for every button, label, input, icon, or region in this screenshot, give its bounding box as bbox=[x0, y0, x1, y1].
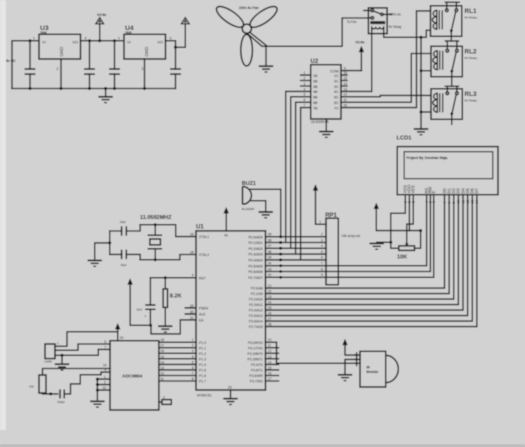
svg-text:P2.4/A12: P2.4/A12 bbox=[249, 309, 263, 313]
wire P2.7 to LCD D7 bbox=[266, 195, 477, 327]
wire P0.7 to LCD E bbox=[266, 195, 434, 278]
svg-text:22: 22 bbox=[268, 289, 272, 293]
U2 right pin numbers bbox=[344, 67, 348, 108]
svg-text:33pf: 33pf bbox=[121, 263, 127, 267]
svg-text:P2.2/A10: P2.2/A10 bbox=[249, 298, 263, 302]
svg-text:ADC0804: ADC0804 bbox=[122, 373, 143, 378]
wire XTAL1 net bbox=[140, 225, 196, 237]
svg-text:P1.1: P1.1 bbox=[199, 346, 206, 350]
buzzer BUZ1 bbox=[242, 181, 256, 211]
capacitor C2 bbox=[84, 39, 95, 90]
svg-text:P3.1/TXD: P3.1/TXD bbox=[248, 346, 263, 350]
wire P2.5 to LCD D5 bbox=[266, 195, 468, 316]
svg-text:7: 7 bbox=[104, 345, 106, 349]
svg-text:3: 3 bbox=[85, 37, 87, 41]
svg-text:4C: 4C bbox=[334, 90, 339, 94]
U2 right stubs 1C 2C 3C bbox=[341, 75, 347, 86]
wire U2 7C to RL1 coil bbox=[341, 11, 431, 108]
svg-text:V2=8v: V2=8v bbox=[97, 13, 107, 17]
svg-text:13: 13 bbox=[161, 366, 165, 370]
ADC bottom tab bbox=[159, 396, 171, 405]
svg-text:COM: COM bbox=[330, 69, 339, 73]
wire XTAL2 net bbox=[140, 255, 196, 260]
svg-text:19: 19 bbox=[190, 233, 194, 237]
resistor R2 8.2K bbox=[163, 278, 182, 326]
svg-text:LM35: LM35 bbox=[44, 359, 52, 363]
wire P2.6 to LCD D6 bbox=[266, 195, 473, 321]
svg-text:9: 9 bbox=[321, 273, 323, 277]
relay RL2 bbox=[431, 41, 478, 86]
ground XTAL bbox=[88, 260, 102, 266]
relay RL4 In-Fan bbox=[347, 8, 402, 34]
wire U2 6C to RL2 coil bbox=[341, 54, 431, 103]
svg-text:P2.3/A11: P2.3/A11 bbox=[249, 303, 263, 307]
svg-text:7805: 7805 bbox=[125, 31, 132, 35]
svg-text:PSEN: PSEN bbox=[199, 307, 209, 311]
svg-text:15: 15 bbox=[344, 76, 348, 80]
wire buzzer to P0.0 bbox=[250, 189, 280, 236]
wire LCD VEE to pot wiper bbox=[407, 195, 413, 243]
svg-text:3B: 3B bbox=[313, 85, 318, 89]
svg-text:15: 15 bbox=[161, 355, 165, 359]
svg-text:18: 18 bbox=[190, 250, 194, 254]
wire U4 VO output bbox=[166, 24, 186, 48]
svg-text:2: 2 bbox=[57, 67, 59, 71]
svg-text:7: 7 bbox=[321, 262, 323, 266]
svg-text:D7: D7 bbox=[474, 187, 479, 193]
svg-text:9V Relay: 9V Relay bbox=[389, 25, 402, 29]
wire RL2-RL3 contact bar bbox=[445, 85, 458, 87]
svg-text:P2.6/A14: P2.6/A14 bbox=[249, 320, 263, 324]
capacitor C7 10uf bbox=[136, 278, 155, 327]
svg-text:20: 20 bbox=[228, 385, 232, 389]
svg-text:P3.6/WR: P3.6/WR bbox=[249, 374, 263, 378]
svg-text:IR: IR bbox=[366, 365, 370, 369]
svg-text:P3.3/INT1: P3.3/INT1 bbox=[248, 358, 263, 362]
svg-text:6: 6 bbox=[304, 98, 306, 102]
svg-text:32: 32 bbox=[268, 273, 272, 277]
svg-text:5: 5 bbox=[304, 93, 306, 97]
svg-text:RL2: RL2 bbox=[465, 49, 478, 56]
wire U3 GND pin2 bbox=[60, 59, 62, 89]
svg-text:1: 1 bbox=[319, 220, 321, 224]
svg-text:P3.0/RXD: P3.0/RXD bbox=[248, 341, 264, 345]
svg-text:VO: VO bbox=[72, 40, 78, 45]
wire LCD VDD bbox=[408, 195, 410, 231]
svg-text:XTAL2: XTAL2 bbox=[199, 253, 209, 257]
svg-text:P0.7/AD7: P0.7/AD7 bbox=[248, 276, 263, 280]
fan 220v Ac Fan bbox=[214, 3, 280, 66]
svg-text:9v DC: 9v DC bbox=[6, 59, 16, 63]
svg-text:24: 24 bbox=[268, 300, 272, 304]
svg-text:1: 1 bbox=[33, 37, 35, 41]
wire P0.0 bbox=[266, 236, 327, 238]
svg-text:1B: 1B bbox=[313, 74, 318, 78]
svg-text:10uf: 10uf bbox=[136, 308, 142, 312]
svg-text:10K: 10K bbox=[397, 255, 407, 261]
wire P2.2 to LCD D2 bbox=[266, 195, 454, 299]
svg-text:GND: GND bbox=[59, 47, 64, 57]
wire relay coil to ULN 4C bbox=[371, 31, 373, 92]
wire relay coil to ground bus bbox=[384, 31, 421, 38]
power V2=8v arrow bbox=[96, 13, 107, 43]
relay RL1 bbox=[431, 2, 478, 41]
resistor pack RP1 bbox=[319, 213, 360, 285]
svg-text:17: 17 bbox=[161, 344, 165, 348]
wire 9v input left vertical bbox=[12, 41, 39, 89]
ground buzzer bbox=[259, 212, 273, 218]
svg-text:4: 4 bbox=[304, 87, 306, 91]
wire P0.1 to U2 4B bbox=[266, 91, 327, 242]
svg-text:16: 16 bbox=[268, 371, 272, 375]
svg-text:5C: 5C bbox=[334, 96, 339, 100]
LCD1 display bbox=[397, 135, 499, 194]
svg-text:1: 1 bbox=[118, 37, 120, 41]
svg-text:27: 27 bbox=[268, 317, 272, 321]
svg-text:VI: VI bbox=[127, 40, 131, 45]
svg-text:34: 34 bbox=[268, 262, 272, 266]
svg-text:9V Relay: 9V Relay bbox=[465, 56, 478, 60]
LCD pin numbers bbox=[404, 200, 480, 204]
svg-text:10: 10 bbox=[103, 386, 107, 390]
svg-text:7B: 7B bbox=[313, 106, 318, 110]
U1 P3 pin labels bbox=[248, 341, 264, 384]
svg-text:14: 14 bbox=[268, 360, 272, 364]
svg-text:5B: 5B bbox=[313, 96, 318, 100]
svg-text:14: 14 bbox=[344, 82, 348, 86]
svg-text:150pf: 150pf bbox=[57, 400, 65, 404]
svg-text:P0.1/AD1: P0.1/AD1 bbox=[248, 241, 263, 245]
svg-text:13: 13 bbox=[344, 87, 348, 91]
svg-text:2: 2 bbox=[142, 67, 144, 71]
svg-text:U2: U2 bbox=[311, 59, 319, 65]
wire U4 GND pin2 bbox=[144, 59, 146, 89]
svg-text:U1: U1 bbox=[196, 225, 204, 231]
ground fan bbox=[259, 66, 273, 72]
svg-text:11.0592MHZ: 11.0592MHZ bbox=[140, 215, 172, 221]
svg-text:P1.7: P1.7 bbox=[199, 380, 206, 384]
svg-text:GND: GND bbox=[144, 47, 149, 57]
svg-text:9: 9 bbox=[192, 274, 194, 278]
wire fan to ground bbox=[248, 34, 266, 66]
wire LM35 VCC bbox=[55, 332, 118, 346]
svg-text:1: 1 bbox=[104, 375, 106, 379]
wire LM35 out to ADC pin6 bbox=[55, 344, 110, 350]
U1 P0 pin labels bbox=[248, 235, 263, 280]
U1 P2 pin labels bbox=[249, 287, 263, 330]
ground 8.2K bbox=[158, 326, 172, 332]
svg-text:P3.4/T0: P3.4/T0 bbox=[251, 363, 263, 367]
wire P2.0 to LCD D0 bbox=[266, 195, 445, 288]
svg-text:AT89C51: AT89C51 bbox=[197, 393, 212, 397]
U1 P1 pin labels bbox=[199, 341, 206, 384]
svg-text:3: 3 bbox=[304, 82, 306, 86]
wire LM35 gnd to ADC pin7 bbox=[55, 349, 110, 355]
ground LM35 bbox=[55, 355, 69, 370]
svg-text:1C: 1C bbox=[334, 74, 339, 78]
wire RL1 top contact bar bbox=[445, 1, 459, 3]
svg-text:12: 12 bbox=[161, 371, 165, 375]
svg-text:3C: 3C bbox=[334, 85, 339, 89]
U1 right pin numbers bbox=[268, 233, 272, 382]
U1 left pin numbers bbox=[190, 233, 194, 382]
svg-text:P2.7/A15: P2.7/A15 bbox=[249, 325, 263, 329]
resistor RV1 10K pot bbox=[397, 243, 415, 261]
svg-text:P1.6: P1.6 bbox=[199, 374, 206, 378]
svg-text:220v Ac: 220v Ac bbox=[390, 12, 402, 16]
svg-text:1: 1 bbox=[192, 338, 194, 342]
svg-text:P2.1/A9: P2.1/A9 bbox=[251, 292, 263, 296]
svg-text:3: 3 bbox=[321, 238, 323, 242]
wire P0.6 to LCD RW bbox=[266, 195, 431, 272]
regulator U4 7805 bbox=[118, 25, 172, 71]
svg-text:16: 16 bbox=[161, 349, 165, 353]
svg-text:8.2K: 8.2K bbox=[170, 293, 182, 299]
svg-text:P1.0: P1.0 bbox=[199, 341, 206, 345]
svg-text:220v Ac Fan: 220v Ac Fan bbox=[239, 6, 259, 10]
wire P0.4 to U2 7B bbox=[266, 108, 327, 260]
wire P3.0 to IR module bbox=[266, 342, 356, 363]
svg-text:P1.5: P1.5 bbox=[199, 369, 206, 373]
wire P2.1 to LCD D1 bbox=[266, 195, 450, 294]
svg-text:33pf: 33pf bbox=[120, 220, 126, 224]
wire U3 VO to U4 VI bbox=[81, 40, 125, 42]
svg-text:14: 14 bbox=[161, 360, 165, 364]
svg-text:7C: 7C bbox=[334, 106, 339, 110]
power arrow RP1 pin1 bbox=[313, 184, 326, 224]
wire P0.5 to LCD RS bbox=[266, 195, 427, 266]
svg-text:36: 36 bbox=[268, 250, 272, 254]
svg-text:21: 21 bbox=[268, 284, 272, 288]
ground relay bus bbox=[414, 129, 428, 135]
svg-text:To Fan: To Fan bbox=[347, 20, 357, 24]
capacitor C8 150pf bbox=[57, 368, 110, 404]
op-amp U2 ULN2003A bbox=[311, 59, 342, 124]
svg-text:RL1: RL1 bbox=[465, 8, 478, 15]
sensor LM35 bbox=[44, 342, 59, 364]
capacitor C4 bbox=[170, 47, 181, 88]
svg-text:EA: EA bbox=[199, 319, 204, 323]
ADC to U1 P1 wires bbox=[159, 338, 196, 381]
wire P0.2 to U2 5B bbox=[266, 97, 327, 249]
ground U1 pin20 bbox=[223, 390, 237, 405]
capacitor C-in bbox=[25, 39, 36, 90]
svg-text:V3=9v: V3=9v bbox=[355, 41, 365, 45]
svg-text:11: 11 bbox=[344, 98, 348, 102]
wire U2 5C to RL3 coil bbox=[341, 95, 431, 96]
power arrow ADC VCC bbox=[115, 323, 120, 341]
power arrow IR bbox=[342, 339, 355, 355]
ADC control pins grounded bbox=[96, 375, 110, 401]
svg-text:25: 25 bbox=[268, 306, 272, 310]
svg-text:16: 16 bbox=[344, 71, 348, 75]
svg-text:6C: 6C bbox=[334, 101, 339, 105]
svg-text:10k: 10k bbox=[29, 385, 34, 389]
svg-text:P2.0/A8: P2.0/A8 bbox=[251, 287, 263, 291]
svg-text:P3.2/INT0: P3.2/INT0 bbox=[248, 352, 263, 356]
wire XTAL caps common bbox=[95, 231, 110, 260]
wire U2 4C to relay RL4 bbox=[341, 90, 372, 92]
svg-text:VI: VI bbox=[42, 40, 46, 45]
svg-text:RST: RST bbox=[199, 276, 206, 280]
microcontroller U1 AT89C51 bbox=[196, 225, 266, 398]
svg-text:9: 9 bbox=[344, 67, 346, 71]
capacitor C5 33pf top bbox=[110, 220, 140, 236]
U2 left pin stubs 1B 2B 3B bbox=[301, 71, 311, 108]
svg-text:P0.5/AD5: P0.5/AD5 bbox=[248, 264, 263, 268]
wire U1 EA tied high bbox=[151, 320, 196, 334]
svg-text:2B: 2B bbox=[313, 79, 318, 83]
wire RST net bbox=[150, 277, 196, 279]
svg-text:P0.0/AD0: P0.0/AD0 bbox=[248, 235, 263, 239]
wire RL1 coil low bbox=[421, 30, 431, 37]
svg-text:VEE: VEE bbox=[411, 185, 416, 194]
ground U2 pin8 bbox=[319, 119, 333, 137]
power arrow RST bbox=[127, 278, 150, 325]
wire RL3 coil low bbox=[421, 111, 431, 113]
wire power bottom rail bbox=[12, 88, 176, 90]
U1 PSEN ALE stubs bbox=[185, 308, 196, 314]
svg-text:LCD1: LCD1 bbox=[397, 135, 413, 141]
svg-text:6: 6 bbox=[104, 340, 106, 344]
svg-text:40: 40 bbox=[224, 234, 228, 238]
svg-text:6: 6 bbox=[321, 256, 323, 260]
svg-text:3: 3 bbox=[192, 349, 194, 353]
svg-text:10k array res: 10k array res bbox=[342, 234, 361, 238]
svg-text:P3.7/RD: P3.7/RD bbox=[250, 380, 263, 384]
svg-text:8: 8 bbox=[321, 267, 323, 271]
svg-text:P1.2: P1.2 bbox=[199, 352, 206, 356]
svg-text:4: 4 bbox=[321, 244, 323, 248]
power arrow U1 VCC pin40 bbox=[224, 207, 229, 231]
svg-text:31: 31 bbox=[190, 316, 194, 320]
ground LCD contrast bbox=[370, 242, 391, 249]
svg-text:4B: 4B bbox=[313, 90, 318, 94]
svg-text:4: 4 bbox=[104, 368, 106, 372]
svg-text:12: 12 bbox=[268, 349, 272, 353]
svg-text:6B: 6B bbox=[313, 101, 318, 105]
crystal X1 11.0592MHZ bbox=[140, 215, 172, 260]
svg-text:9V Relay: 9V Relay bbox=[465, 16, 478, 20]
capacitor C3 bbox=[109, 39, 120, 90]
svg-text:P3.5/T1: P3.5/T1 bbox=[251, 369, 263, 373]
svg-text:9V Relay: 9V Relay bbox=[465, 99, 478, 103]
wire LCD VSS to ground and pot bbox=[391, 195, 406, 249]
svg-text:3: 3 bbox=[170, 37, 172, 41]
wire P2.4 to LCD D4 bbox=[266, 195, 464, 310]
svg-text:7808: 7808 bbox=[40, 31, 47, 35]
svg-text:28: 28 bbox=[268, 322, 272, 326]
svg-text:2: 2 bbox=[304, 76, 306, 80]
wire RL1-RL2 contact bar bbox=[445, 40, 458, 42]
power arrow LCD VDD bbox=[374, 203, 423, 249]
wire U2 COM to V3 bbox=[341, 70, 361, 72]
svg-text:23: 23 bbox=[268, 295, 272, 299]
svg-text:39: 39 bbox=[268, 233, 272, 237]
wire RL2 coil low bbox=[421, 70, 431, 72]
power V3=9v arrow bbox=[355, 41, 365, 71]
svg-text:5: 5 bbox=[321, 250, 323, 254]
svg-text:P0.3/AD3: P0.3/AD3 bbox=[248, 253, 263, 257]
svg-text:E: E bbox=[431, 191, 436, 194]
svg-text:38: 38 bbox=[268, 238, 272, 242]
ground IR bbox=[338, 359, 355, 380]
svg-text:33: 33 bbox=[268, 267, 272, 271]
power V1 arrow bbox=[181, 18, 189, 24]
svg-text:ALE: ALE bbox=[199, 313, 206, 317]
wire P2.3 to LCD D3 bbox=[266, 195, 459, 305]
resistor R3 10k clock bbox=[29, 364, 110, 396]
svg-text:P0.4/AD4: P0.4/AD4 bbox=[248, 259, 263, 263]
svg-text:1: 1 bbox=[304, 71, 306, 75]
wire buzzer to ground bbox=[251, 201, 266, 212]
svg-text:Project By Zeeshan Raja.: Project By Zeeshan Raja. bbox=[406, 156, 448, 160]
svg-text:11: 11 bbox=[161, 377, 165, 381]
svg-text:20: 20 bbox=[120, 336, 124, 340]
U1 P3 stubs bbox=[266, 348, 279, 381]
svg-text:Module: Module bbox=[366, 370, 378, 374]
relay RL3 bbox=[431, 86, 478, 124]
svg-text:VO: VO bbox=[157, 40, 163, 45]
svg-text:18: 18 bbox=[161, 338, 165, 342]
svg-text:37: 37 bbox=[268, 244, 272, 248]
svg-text:XTAL1: XTAL1 bbox=[199, 235, 209, 239]
svg-text:P1.4: P1.4 bbox=[199, 363, 206, 367]
sensor IR Module bbox=[355, 351, 398, 387]
ground power section bbox=[98, 87, 112, 103]
svg-text:5: 5 bbox=[192, 360, 194, 364]
svg-text:26: 26 bbox=[268, 311, 272, 315]
svg-text:12: 12 bbox=[344, 93, 348, 97]
capacitor C6 33pf bottom bbox=[110, 250, 140, 267]
svg-text:P0.6/AD6: P0.6/AD6 bbox=[248, 270, 263, 274]
svg-text:P0.2/AD2: P0.2/AD2 bbox=[248, 247, 263, 251]
svg-text:19: 19 bbox=[103, 364, 107, 368]
wire fan to relay bbox=[250, 18, 373, 46]
svg-text:P1.3: P1.3 bbox=[199, 358, 206, 362]
svg-text:2: 2 bbox=[104, 381, 106, 385]
svg-text:2C: 2C bbox=[334, 79, 339, 83]
svg-text:RL3: RL3 bbox=[465, 91, 478, 98]
ground ADC control bbox=[90, 401, 104, 407]
wire P0.3 to U2 6B bbox=[266, 102, 327, 254]
svg-text:35: 35 bbox=[268, 256, 272, 260]
regulator U3 7808 bbox=[33, 25, 87, 71]
ADC U5 ADC0804 bbox=[110, 336, 159, 410]
svg-text:10: 10 bbox=[268, 338, 272, 342]
svg-text:P2.5/A13: P2.5/A13 bbox=[249, 314, 263, 318]
svg-text:7: 7 bbox=[192, 371, 194, 375]
svg-text:2: 2 bbox=[321, 233, 323, 237]
svg-text:BUZZER: BUZZER bbox=[242, 207, 255, 211]
wire ground bus relays bbox=[420, 37, 422, 128]
